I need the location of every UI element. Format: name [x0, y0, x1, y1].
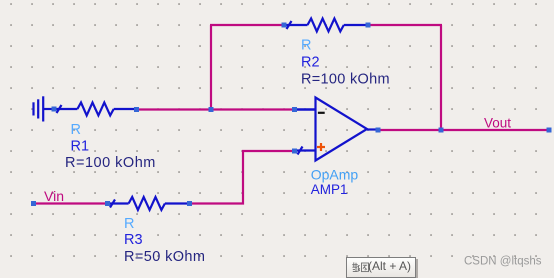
resistor R2: [284, 19, 368, 32]
svg-text:R=100 kOhm: R=100 kOhm: [301, 71, 390, 87]
tooltip glyph jie: [352, 262, 360, 271]
svg-text:OpAmp: OpAmp: [311, 166, 359, 182]
wire vertical feedback right: [440, 25, 442, 130]
wire Vin horizontal: [34, 202, 108, 204]
tooltip glyph tu: [362, 263, 369, 272]
op-amp minus sign: [318, 112, 325, 114]
svg-text:CSDN @ltqshs: CSDN @ltqshs: [464, 256, 542, 268]
node op-amp output: [376, 128, 381, 133]
wire top to R2: [210, 24, 284, 26]
node R1 left: [52, 107, 57, 112]
svg-text:R: R: [124, 216, 134, 232]
node R2 right: [366, 23, 371, 28]
wire op-amp output to Vout: [378, 129, 549, 131]
op-amp plus sign: [317, 143, 325, 151]
svg-text:Vout: Vout: [484, 115, 511, 130]
wire vertical feedback left: [210, 25, 212, 110]
node Vout end: [547, 128, 552, 133]
node R3 right: [187, 201, 192, 206]
svg-text:R=50 kOhm: R=50 kOhm: [124, 249, 205, 265]
svg-text:R: R: [301, 38, 311, 54]
junction node Vout feedback: [439, 128, 444, 133]
node op-amp plus input: [292, 149, 297, 154]
wire R2 to feedback corner: [368, 24, 442, 26]
junction node A: [209, 107, 214, 112]
svg-text:R2: R2: [301, 54, 320, 70]
node R1 right: [134, 107, 139, 112]
svg-text:Vin: Vin: [44, 188, 64, 204]
ground: [34, 96, 55, 121]
svg-text:R1: R1: [71, 139, 90, 155]
svg-text:R3: R3: [124, 232, 143, 248]
op-amp U1 triangle: [296, 98, 378, 161]
node Vin end: [31, 201, 36, 206]
svg-text:R: R: [71, 122, 81, 138]
tooltip screenshot box: [346, 257, 416, 278]
wire from R1 to junction and op-amp minus input: [137, 108, 297, 110]
resistor R1: [54, 103, 137, 116]
node R3 left: [105, 201, 110, 206]
node op-amp minus input: [292, 107, 297, 112]
svg-text:R=100 kOhm: R=100 kOhm: [65, 155, 156, 171]
svg-text:AMP1: AMP1: [311, 182, 348, 197]
resistor R3: [108, 197, 190, 210]
node R2 left: [282, 23, 287, 28]
wire R3 to op-amp plus input: [190, 151, 297, 204]
